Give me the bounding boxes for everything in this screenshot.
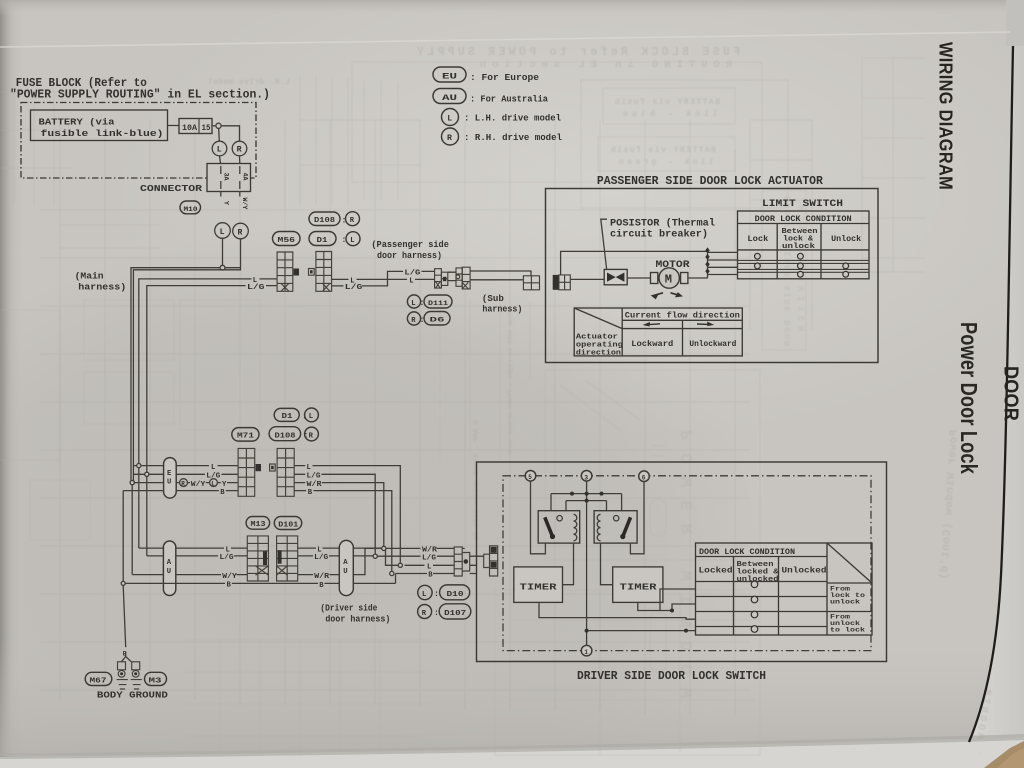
svg-text:W/Y: W/Y — [241, 198, 248, 210]
relay 1 box — [538, 511, 580, 543]
L : D10 ovals — [418, 585, 470, 600]
svg-text:Actuator: Actuator — [576, 333, 618, 341]
svg-text:TIMER: TIMER — [620, 582, 657, 593]
R drive circle on W/Y wire — [233, 223, 249, 239]
ground fork — [121, 652, 131, 662]
connector grid D1 half — [316, 252, 332, 292]
limit switch contact circles — [755, 253, 849, 277]
svg-text:Y: Y — [223, 201, 230, 205]
actuator outside connector grid — [523, 276, 539, 290]
svg-text:10A: 10A — [182, 124, 197, 133]
svg-text:D108: D108 — [314, 217, 335, 225]
svg-text:Locked: Locked — [699, 566, 733, 576]
M67 oval — [85, 672, 112, 685]
driver side door lock switch box — [477, 462, 887, 662]
svg-text:Current flow direction: Current flow direction — [625, 311, 740, 321]
junction ring W/Y — [130, 481, 134, 485]
svg-text:ROUTING in EL section: ROUTING in EL section — [480, 59, 732, 71]
driver table texts — [699, 548, 866, 634]
svg-text:Unlocked: Unlocked — [782, 566, 827, 576]
fuse block dash-dot box — [21, 103, 256, 179]
black pin sub connector — [443, 277, 447, 281]
wire battery to fuse — [168, 125, 180, 127]
svg-text:L/G: L/G — [422, 554, 436, 562]
svg-text:BODY GROUND: BODY GROUND — [97, 689, 168, 700]
connector M56 oval — [273, 232, 301, 246]
pin ring sub connector 2 — [456, 275, 460, 279]
current flow direction table — [574, 308, 742, 356]
connector grid M56 half — [277, 252, 293, 291]
junction dots lower — [585, 609, 688, 633]
svg-text:to lock: to lock — [830, 626, 866, 633]
black pin square M56 — [294, 269, 300, 276]
wire W/R right of D101 — [298, 548, 455, 574]
wire B row EU — [123, 490, 238, 492]
svg-text:W/Y: W/Y — [222, 573, 237, 581]
passenger side harness label — [371, 239, 449, 261]
mating pin square D108 — [270, 464, 276, 471]
svg-text:R: R — [309, 432, 314, 440]
bottom page edge light band — [0, 737, 1024, 768]
svg-text:L.H. drive model: L.H. drive model — [208, 77, 290, 87]
wire L/G row AU — [147, 555, 248, 557]
svg-text:B: B — [308, 489, 313, 497]
wire Y left turn down bus — [131, 268, 240, 482]
svg-text:M3: M3 — [149, 677, 162, 685]
wire terminal1 row to table — [587, 630, 696, 632]
svg-text:L/G: L/G — [307, 473, 321, 481]
svg-text:B: B — [428, 572, 433, 580]
junction ring W/R — [382, 546, 386, 550]
legend R circle — [442, 128, 563, 145]
svg-text:R: R — [238, 228, 243, 237]
wire L from D1 to sub connector — [332, 278, 435, 280]
top-right corner above page edge — [1006, 0, 1024, 46]
wire grid to posistor — [570, 278, 604, 280]
wire L/G main harness — [147, 286, 277, 556]
wire L/G right of D108 — [294, 474, 375, 554]
svg-text:L: L — [427, 564, 431, 572]
svg-text:L: L — [409, 278, 413, 286]
svg-text:Unlockward: Unlockward — [689, 339, 736, 349]
svg-text:: R.H. drive model: : R.H. drive model — [464, 132, 562, 143]
svg-text:harness): harness) — [78, 282, 126, 293]
connector D108:R ovals — [309, 212, 360, 226]
connector grid M13 half — [247, 536, 268, 581]
wire W/Y row AU — [132, 574, 247, 576]
connector grid D101 half — [277, 536, 298, 581]
svg-text:harness): harness) — [482, 303, 522, 314]
junction ring L — [398, 563, 402, 567]
R : D6 ovals — [407, 312, 450, 326]
svg-text:(Main: (Main — [75, 270, 104, 281]
svg-text:D1: D1 — [317, 237, 329, 245]
L drive circle — [210, 479, 218, 488]
svg-text:L: L — [350, 237, 354, 245]
wire W/R right of D108 — [294, 483, 384, 547]
wire timer2 bottom to table — [638, 589, 696, 611]
legend L circle — [442, 109, 562, 126]
L drive circle on Y wire — [215, 223, 231, 239]
svg-text:L: L — [217, 146, 222, 155]
wire junction down to L — [218, 128, 221, 141]
wire jog to table row2 — [672, 604, 696, 611]
svg-text:D111: D111 — [428, 300, 448, 307]
svg-text:M71: M71 — [237, 433, 255, 441]
corner B bus down — [122, 491, 124, 582]
terminal 3 — [581, 471, 592, 482]
svg-text:D101: D101 — [278, 521, 299, 529]
svg-text:L: L — [220, 228, 225, 237]
EU pill passenger row — [164, 458, 177, 499]
AU pill driver door row — [339, 540, 353, 595]
svg-text:door harness): door harness) — [325, 614, 390, 625]
svg-text:direction: direction — [576, 349, 621, 357]
svg-text:BATTERY via fusib: BATTERY via fusib — [615, 97, 720, 107]
svg-text:A: A — [343, 559, 348, 567]
svg-text:3: 3 — [584, 474, 588, 481]
svg-text:E: E — [167, 470, 172, 478]
svg-text:1: 1 — [584, 649, 588, 656]
wire junction to R branch — [221, 126, 239, 141]
svg-text:EU: EU — [442, 72, 457, 81]
wire W/Y down and left (main harness bus) — [133, 239, 240, 482]
svg-text:L/G: L/G — [345, 284, 363, 292]
svg-text:W/R: W/R — [422, 547, 438, 555]
in-box connector grid — [490, 546, 498, 576]
svg-text:M56: M56 — [278, 237, 296, 245]
svg-text:L: L — [211, 480, 215, 487]
wire L right of D108 — [294, 466, 400, 564]
D108 : R ovals lower — [269, 427, 318, 441]
svg-text:D107: D107 — [444, 610, 466, 618]
svg-text:door harness): door harness) — [377, 250, 442, 261]
junction node — [216, 123, 221, 128]
svg-text:B: B — [227, 582, 232, 590]
timer 2 — [613, 567, 663, 603]
svg-text::: : — [434, 609, 439, 618]
svg-text:AU: AU — [442, 94, 457, 103]
mating pin square D1 — [309, 269, 315, 276]
wire stubs below connector — [220, 192, 222, 197]
wire terminal 3 center — [586, 481, 588, 645]
svg-text:3A: 3A — [223, 173, 230, 181]
junction ring W/Y bus — [130, 481, 134, 485]
svg-text:A: A — [167, 559, 172, 567]
wire L main harness — [139, 279, 277, 548]
corner W/Y bus down — [131, 485, 133, 575]
svg-text:WIRING DIAGRAM: WIRING DIAGRAM — [936, 42, 956, 190]
wire L right of D101 — [298, 548, 455, 565]
sub connector pair D111 left half — [435, 269, 448, 288]
svg-text:unlock: unlock — [782, 243, 816, 251]
junction ring L/G — [373, 554, 377, 558]
black pin square M71 — [256, 464, 261, 471]
driver table contact circles — [751, 581, 758, 632]
terminal 1 — [581, 645, 592, 656]
svg-text:(Driver side: (Driver side — [320, 602, 377, 613]
legend AU oval — [433, 89, 548, 105]
svg-text:L/G: L/G — [247, 284, 265, 292]
svg-text:BATTERY via fusib: BATTERY via fusib — [611, 145, 716, 155]
connector box with fuses 3A 4A — [207, 164, 251, 192]
connector grid D108 half — [277, 448, 294, 496]
junction ring B bus — [121, 581, 125, 585]
main harness label — [75, 270, 127, 292]
svg-text:(Sub: (Sub — [482, 293, 504, 304]
relay bus 1 — [551, 494, 622, 511]
motor M1 — [651, 268, 688, 288]
black bar pin M13 — [263, 552, 267, 566]
wire L/G row EU — [133, 473, 238, 475]
wires between sub connector pairs — [448, 272, 456, 280]
svg-text:D108: D108 — [275, 433, 296, 441]
svg-text:fusible link-blue): fusible link-blue) — [41, 128, 164, 139]
svg-text:TIMER: TIMER — [520, 582, 557, 593]
svg-text:D10: D10 — [447, 591, 464, 599]
fuse block title — [10, 77, 270, 102]
door connector pin dot — [464, 559, 469, 564]
svg-text:L: L — [411, 300, 415, 308]
wire coil1 to timer1 — [563, 543, 574, 585]
L : D111 ovals — [407, 295, 452, 308]
actuator inside connector grid — [553, 275, 571, 290]
wire terminal 6 to relay 2 — [630, 482, 644, 554]
svg-text:U: U — [167, 568, 171, 576]
L indicator circle — [212, 141, 227, 156]
svg-text:Y: Y — [222, 481, 227, 489]
svg-text:(Passenger side: (Passenger side — [371, 239, 449, 250]
svg-text:L: L — [211, 464, 215, 472]
D101 oval — [274, 517, 301, 530]
page edge black curve — [969, 46, 1013, 742]
svg-text:Power Door Lock: Power Door Lock — [956, 322, 982, 474]
svg-text:from left to right . Front dri: from left to right . Front driver side — [507, 310, 515, 455]
wire L/G right of D101 — [298, 555, 455, 557]
junction ring L/G bus — [145, 472, 149, 476]
ground symbol left — [117, 662, 128, 689]
wires across box edge — [462, 548, 484, 573]
limit switch table — [738, 211, 870, 279]
sub connector pair 2 left half — [456, 267, 470, 289]
svg-text:W/Y: W/Y — [191, 481, 206, 489]
svg-text:L: L — [307, 464, 311, 472]
svg-text:D6: D6 — [430, 317, 445, 324]
black bar pin D101 — [278, 550, 282, 564]
D1 : L ovals lower — [274, 408, 318, 422]
connector M10 oval — [180, 201, 201, 214]
svg-text:R: R — [422, 610, 427, 618]
svg-text:R: R — [447, 134, 452, 143]
wires bus to limit switch rows — [708, 252, 738, 274]
svg-text:L/G: L/G — [220, 554, 234, 562]
M13 oval — [246, 517, 270, 530]
current flow table texts — [576, 311, 740, 358]
wire motor to pin bus — [688, 277, 708, 279]
timer 1 — [514, 567, 563, 603]
arrow unlockward — [697, 323, 712, 326]
wire coil2 to timer2 — [601, 543, 613, 585]
svg-text:M67: M67 — [90, 677, 107, 685]
POSISTOR label — [610, 218, 715, 241]
svg-text:: L.H. drive model: : L.H. drive model — [464, 113, 561, 124]
svg-text:operating: operating — [576, 341, 623, 349]
svg-text:circuit breaker): circuit breaker) — [610, 228, 708, 240]
in-box connector bracket — [484, 554, 490, 567]
ground symbol right — [131, 662, 142, 689]
svg-text:R: R — [411, 317, 416, 325]
wire R to connector — [239, 156, 241, 164]
wire B jog to door row — [396, 574, 455, 584]
svg-text:unlock: unlock — [830, 598, 861, 605]
AU pill main harness row — [163, 541, 175, 596]
wire L row AU — [139, 547, 248, 549]
legend EU oval — [433, 67, 539, 83]
svg-text:B: B — [319, 582, 324, 590]
svg-text:D1: D1 — [282, 413, 294, 421]
actuator box — [546, 189, 879, 363]
M71 oval — [232, 428, 259, 442]
wire posistor to motor — [627, 277, 650, 279]
pin bus with diamonds — [705, 247, 709, 278]
wire L to connector — [220, 156, 221, 164]
desk corner bottom-right — [984, 741, 1024, 768]
svg-text:R: R — [237, 146, 242, 155]
svg-text:: For Australia: : For Australia — [470, 93, 548, 104]
svg-text:R: R — [350, 217, 355, 225]
wire grid up over to limit switch — [561, 251, 708, 275]
svg-text:L: L — [309, 413, 313, 421]
R : D107 ovals — [418, 604, 471, 619]
Sub harness label — [482, 293, 523, 315]
connector grid M71 half — [238, 448, 255, 496]
junction ring L bus — [137, 464, 141, 468]
svg-text:DOOR: DOOR — [1000, 366, 1022, 421]
svg-text:L: L — [422, 591, 426, 599]
battery B1 — [31, 110, 168, 141]
svg-text:L/G: L/G — [404, 270, 420, 278]
terminal 6 — [639, 471, 650, 482]
door connector grid — [454, 547, 462, 576]
junction ring B — [390, 571, 394, 575]
terminal 5 — [525, 471, 536, 482]
svg-text:DRIVER SIDE DOOR LOCK SWITCH: DRIVER SIDE DOOR LOCK SWITCH — [577, 670, 766, 683]
faint paper crease top — [0, 32, 1010, 47]
svg-text:15: 15 — [202, 124, 211, 133]
driver side harness label — [320, 602, 390, 624]
R indicator circle — [232, 141, 247, 156]
junction ring on main harness row — [220, 265, 225, 270]
svg-text:L: L — [447, 114, 452, 123]
relay 2 box — [594, 511, 637, 543]
svg-text:DOOR LOCK CONDITION: DOOR LOCK CONDITION — [755, 215, 852, 224]
page right edge strip (next page) — [969, 46, 1024, 742]
inner dash-dot border — [503, 476, 871, 651]
svg-text:BATTERY (via: BATTERY (via — [39, 117, 115, 128]
wire L/G jog over L — [332, 271, 435, 286]
svg-text:6: 6 — [642, 475, 646, 482]
body ground wire down — [123, 585, 126, 647]
svg-text:U: U — [343, 568, 347, 576]
svg-text:B: B — [220, 489, 225, 497]
wire fuse to junction — [212, 125, 216, 127]
wire B right of D108 — [294, 491, 392, 572]
svg-text:W/R: W/R — [314, 573, 330, 581]
svg-text:"POWER SUPPLY ROUTING" in EL s: "POWER SUPPLY ROUTING" in EL section.) — [10, 89, 270, 102]
driver door lock condition table — [696, 543, 873, 635]
connector D1:L ovals — [309, 232, 360, 246]
junction dots bus — [570, 492, 604, 503]
svg-text::: : — [434, 590, 439, 599]
svg-text:L: L — [226, 546, 230, 554]
wire L row EU — [133, 465, 238, 467]
svg-text:PASSENGER SIDE DOOR LOCK ACTUA: PASSENGER SIDE DOOR LOCK ACTUATOR — [597, 175, 823, 188]
wire terminal 5 to relay 1 — [531, 481, 546, 554]
posistor pointer line — [601, 219, 607, 269]
svg-text:R: R — [181, 480, 185, 487]
svg-text:DOOR LOCK CONDITION: DOOR LOCK CONDITION — [699, 548, 795, 557]
svg-text:LIMIT SWITCH: LIMIT SWITCH — [762, 198, 843, 210]
wire Y down — [222, 238, 224, 265]
limit switch table headers — [747, 215, 861, 251]
svg-text:L: L — [317, 546, 321, 554]
wire B row AU — [123, 582, 395, 584]
svg-text:L/G: L/G — [314, 554, 328, 562]
door connector bracket — [462, 553, 470, 572]
wire W/Y row EU — [134, 482, 238, 484]
R drive circle — [180, 479, 188, 488]
svg-text:: For Europe: : For Europe — [470, 72, 539, 83]
M3 oval — [145, 672, 167, 685]
svg-text:4A: 4A — [242, 173, 249, 181]
svg-text:M10: M10 — [184, 206, 198, 213]
svg-text:M13: M13 — [251, 521, 266, 529]
rotation arrows under motor — [653, 293, 682, 298]
svg-text:W/R: W/R — [307, 481, 323, 489]
arrow lockward — [645, 323, 660, 326]
fuse F1 10A — [179, 119, 212, 134]
wire timer1 bottom to table — [539, 602, 696, 619]
svg-text:U: U — [167, 479, 171, 487]
svg-text:5: 5 — [528, 474, 532, 481]
svg-text:Lock: Lock — [747, 234, 768, 244]
wires sub connector 2 to actuator connector — [470, 271, 531, 280]
svg-text:Lockward: Lockward — [631, 339, 673, 349]
svg-text:Unlock: Unlock — [831, 234, 861, 244]
relay bus 2 — [566, 501, 607, 511]
svg-text:M: M — [665, 272, 672, 286]
svg-text:CONNECTOR: CONNECTOR — [140, 183, 202, 194]
posistor (thermal circuit breaker) — [604, 269, 627, 284]
